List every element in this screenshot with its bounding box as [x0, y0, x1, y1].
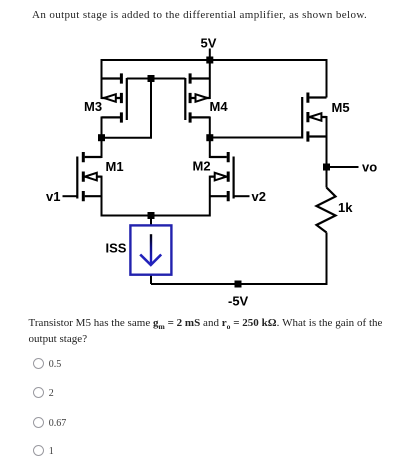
wire left column M1 bulk+source to tail: [101, 176, 103, 217]
svg-text:M4: M4: [210, 99, 229, 114]
wire M4 drain to M5 gate: [210, 137, 302, 139]
radio option 0.67: [33, 417, 44, 428]
svg-text:1k: 1k: [338, 200, 353, 215]
radio option 2: [33, 387, 44, 398]
svg-text:M2: M2: [193, 158, 211, 173]
junction dot 5V node: [206, 57, 213, 64]
svg-text:v2: v2: [252, 189, 266, 204]
current source ISS arrow: [140, 234, 161, 265]
wire M5 drain column from rail: [326, 59, 328, 98]
transistor M1: [77, 152, 101, 201]
wire tail node horizontal: [102, 215, 210, 217]
wire ISS top stub: [150, 216, 152, 226]
title text: [32, 9, 367, 21]
resistor R 1k: [317, 188, 336, 233]
circuit schematic: [0, 0, 419, 316]
svg-text:M3: M3: [84, 99, 102, 114]
wire mirror riser: [150, 79, 152, 138]
wire left column rail to M3 source/bulk: [101, 59, 103, 99]
wire 5V top rail: [102, 59, 327, 61]
svg-text:ISS: ISS: [106, 241, 127, 256]
svg-text:5V: 5V: [201, 36, 217, 51]
junction dot vo node: [323, 164, 330, 171]
wire ISS bottom stub: [150, 275, 152, 284]
wire left column M3 drain to M1 drain: [101, 117, 103, 159]
wire right column rail to M4 source/bulk: [209, 59, 211, 99]
wire M3 drain horizontal: [102, 137, 153, 139]
transistor M2: [210, 152, 234, 201]
junction dot -5V node: [235, 281, 242, 288]
junction dot tail node: [148, 212, 155, 219]
wire v1 input: [63, 195, 78, 197]
wire -5V bottom rail: [151, 283, 328, 285]
svg-text:M5: M5: [332, 100, 350, 115]
svg-text:-5V: -5V: [228, 294, 249, 309]
svg-text:M1: M1: [106, 159, 124, 174]
junction dot M4 drain node: [206, 134, 213, 141]
wire M5 source column to resistor: [326, 116, 328, 188]
wire v2 input: [235, 195, 250, 197]
transistor M4: [185, 73, 210, 122]
svg-text:vo: vo: [362, 160, 377, 175]
current source ISS box: [130, 225, 171, 274]
radio option 1: [33, 445, 44, 456]
transistor M3: [102, 73, 127, 122]
wire 5V stub: [209, 49, 211, 61]
junction dot M3 drain node: [98, 134, 105, 141]
wire vo lead: [327, 166, 359, 168]
wire right column M4 drain to M2 drain: [209, 117, 211, 159]
transistor M5: [302, 93, 326, 142]
question text: [29, 317, 419, 346]
svg-text:v1: v1: [46, 189, 60, 204]
radio option 0.5: [33, 358, 44, 369]
wire right column M2 bulk+source to tail: [209, 176, 211, 217]
junction dot gate bus node: [148, 75, 155, 82]
wire gate bus M3-M4: [127, 78, 186, 80]
wire resistor bottom to -5V rail: [326, 233, 328, 285]
